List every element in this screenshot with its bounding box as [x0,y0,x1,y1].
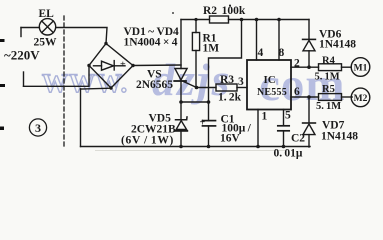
resistor R5 box [319,94,342,101]
wire top rail left segment [181,19,210,21]
svg-text:IC: IC [264,74,276,86]
svg-text:3: 3 [35,121,41,135]
diode VD7 triangle [303,124,315,135]
resistor R2 box [210,16,229,23]
scan shadow line [95,150,285,152]
svg-text:R2 100k: R2 100k [203,5,246,17]
wire lamp to bridge top [56,28,107,44]
wire bottom AC to bridge left corner [24,66,90,87]
svg-text:2: 2 [294,58,300,70]
touch plate M1 circle [351,58,370,77]
svg-text:5. 1M: 5. 1M [316,101,341,112]
bridge inner diode [94,65,102,67]
diode VD7 bar [303,122,316,124]
zener VD5 lead to rail [180,131,182,147]
svg-text:0. 01μ: 0. 01μ [274,148,303,160]
op IC NE555 box [247,60,291,110]
capacitor C1 bottom lead [208,126,210,147]
dashed boundary line [63,16,65,146]
svg-text:NE555: NE555 [257,87,287,98]
capacitor C1 plates [203,120,216,122]
thyristor VS cathode bar [174,80,186,82]
svg-text:R5: R5 [322,84,335,95]
wire bridge DC+ to thyristor anode [133,64,181,67]
wire ground riser [80,89,82,147]
wire IC pin2 to R4 [291,66,319,68]
svg-text:M1: M1 [354,64,368,74]
thyristor VS triangle [175,69,187,81]
svg-text:1. 2k: 1. 2k [218,92,242,104]
wire IC pin8 [278,20,280,61]
wire R4 to M1 [342,66,352,68]
resistor R1 bottom lead [195,51,197,88]
capacitor C2 plates [278,125,289,127]
wire top AC line left stub [20,28,22,37]
watermark www [42,54,346,111]
wire bridge DC- down-left [81,87,112,90]
diode VD7 bottom lead [308,135,310,147]
svg-text:1: 1 [262,111,268,123]
svg-text:4: 4 [258,47,264,59]
svg-text:1N4148: 1N4148 [319,39,356,51]
svg-text:1M: 1M [203,43,220,55]
svg-text:16V: 16V [220,133,241,145]
diode VD6 bar [303,38,316,40]
wire IC pin5 to C2 [283,110,285,126]
wire gate node to R3 [197,87,217,89]
bridge rectifier VD1~VD4 diamond [89,44,133,89]
svg-text:5: 5 [285,110,291,122]
wire V+ jog down to C1 [209,20,242,121]
diode VD6 bottom lead [308,51,310,67]
wire R5 to M2 [342,96,353,98]
resistor R1 box [192,33,199,51]
svg-text:2N6565: 2N6565 [136,79,173,91]
svg-text:1N4148: 1N4148 [321,131,358,143]
thyristor VS gate wire [184,82,197,88]
svg-text:~220V: ~220V [4,48,40,63]
svg-text:6: 6 [294,86,300,98]
thyristor VS anode wire [180,20,182,69]
zener VD5 triangle [176,121,186,130]
svg-text:5. 1M: 5. 1M [315,72,340,83]
wire bottom ground rail [81,146,311,148]
wire IC pin1 to rail [257,110,259,147]
svg-text:C2: C2 [291,133,305,145]
svg-text:+: + [120,60,126,71]
wire V+ link to thyristor cathode [181,101,209,103]
resistor R4 box [319,64,342,71]
wire IC pin4 [256,20,258,61]
diode VD6 triangle [303,40,315,50]
zener VD5 bar [176,117,188,120]
wire R3 to IC pin3 [237,87,247,89]
svg-text:M2: M2 [354,94,368,104]
svg-text:R4: R4 [322,56,336,67]
wire bottom AC left stub [23,72,25,86]
resistor R1 top lead [195,20,197,33]
diode VD6 top lead [308,20,310,40]
lamp EL [39,19,55,35]
wire top AC to lamp [21,27,39,29]
thyristor VS cathode wire [180,81,182,119]
label circle 3 [29,119,46,136]
svg-text:(6V / 1W): (6V / 1W) [121,135,174,147]
svg-text:+: + [200,118,206,129]
wire top rail right segment [229,19,310,21]
touch plate M2 circle [351,88,370,107]
svg-text:3: 3 [238,76,244,88]
svg-text:8: 8 [279,47,285,59]
wire IC pin6 to R5 [291,96,319,98]
capacitor C2 bottom lead [283,131,285,147]
svg-text:1N4004 × 4: 1N4004 × 4 [124,37,178,49]
svg-text:R3: R3 [220,74,234,86]
svg-text:EL: EL [39,8,55,20]
diode VD7 top lead [308,97,310,123]
scan edge artifacts [0,5,231,131]
resistor R3 box [216,84,237,91]
